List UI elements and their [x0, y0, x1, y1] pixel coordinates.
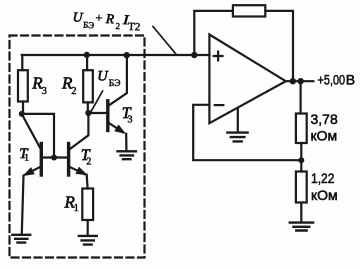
- node B (R2 bottom / T3 base): [85, 110, 91, 116]
- wire feedback left vertical + top run: [194, 11, 233, 55]
- label node formula U_BE + R2 I_T2: [72, 9, 141, 33]
- wire 1.22k to ground: [300, 203, 302, 223]
- svg-text:3: 3: [42, 86, 47, 97]
- svg-text:БЭ: БЭ: [109, 79, 121, 89]
- label T2: [81, 147, 92, 167]
- node A (R3 bottom / T1 collector / bases): [19, 111, 25, 117]
- resistor R2: [83, 55, 93, 113]
- svg-text:2: 2: [71, 86, 76, 97]
- wire divider middle: [300, 143, 302, 172]
- wire T1 collector diagonal: [22, 115, 41, 150]
- wire T3 emitter to ground: [125, 134, 127, 151]
- svg-text:БЭ: БЭ: [83, 20, 95, 31]
- label R1: [64, 193, 79, 215]
- wire output to divider: [300, 81, 302, 113]
- ground (divider bottom): [290, 223, 313, 231]
- value 3,78 kOhm: [311, 111, 338, 144]
- wire base tie T1-T2: [41, 156, 68, 158]
- svg-text:+: +: [95, 11, 103, 25]
- value 1,22 kOhm: [311, 170, 338, 203]
- wire output: [286, 80, 314, 82]
- wire T2 emitter to R1: [86, 175, 89, 189]
- svg-text:1: 1: [74, 203, 79, 214]
- svg-text:R: R: [104, 11, 115, 27]
- svg-text:кОм: кОм: [311, 187, 338, 203]
- node D (divider tap): [298, 157, 304, 163]
- node base junction: [51, 155, 57, 161]
- wire node A to bases: [22, 114, 54, 158]
- pointer line formula to rail: [153, 27, 176, 54]
- op-amp + input marking: [214, 52, 223, 61]
- wire - input feedback from divider: [193, 105, 301, 160]
- label U_BE (T3): [97, 69, 120, 90]
- wire T1 emitter to ground: [22, 176, 24, 234]
- svg-text:В: В: [346, 71, 355, 87]
- resistor R1: [82, 189, 93, 236]
- node output (feedback): [290, 78, 296, 84]
- node on rail at R2 top: [84, 52, 90, 58]
- ground (op-amp): [227, 133, 247, 142]
- transistor T2: [69, 144, 87, 176]
- svg-text:U: U: [97, 69, 109, 85]
- transistor T1: [24, 144, 41, 176]
- wire T3 collector: [109, 55, 127, 105]
- svg-text:1: 1: [24, 154, 29, 164]
- resistor 3.78 kOhm: [296, 114, 307, 144]
- node output (divider): [297, 78, 303, 84]
- svg-text:3,78: 3,78: [311, 111, 338, 127]
- svg-text:+5,00: +5,00: [318, 72, 346, 88]
- label R3: [31, 73, 47, 97]
- svg-text:1,22: 1,22: [311, 170, 334, 186]
- wire feedback right run down to output: [265, 11, 293, 81]
- op-amp - input marking: [215, 104, 224, 106]
- transistor T3: [108, 101, 125, 133]
- svg-text:Т2: Т2: [128, 21, 141, 34]
- wire node B to T3 base: [88, 112, 106, 114]
- dashed box (bandgap cell outline): [10, 36, 145, 258]
- svg-text:2: 2: [86, 156, 91, 167]
- label R2: [61, 73, 77, 97]
- svg-text:кОм: кОм: [311, 127, 338, 143]
- node on rail at T3 collector: [124, 52, 130, 58]
- resistor R3: [18, 55, 28, 114]
- label +5,00 V output: [318, 72, 346, 88]
- resistor feedback (top): [233, 5, 265, 16]
- pointer line U_BE to node B: [91, 91, 103, 112]
- ground (R1 bottom): [79, 236, 97, 245]
- ground (T1 emitter): [12, 235, 30, 243]
- label T1: [19, 146, 29, 164]
- node C (+ input / feedback tap): [191, 52, 197, 58]
- resistor 1.22 kOhm: [296, 172, 307, 203]
- wire T2 collector (from node B): [69, 113, 89, 150]
- wire: main top rail y=55 to op-amp + input: [22, 54, 210, 56]
- op-amp U1 triangle: [209, 35, 285, 124]
- svg-text:2: 2: [115, 21, 120, 31]
- svg-text:3: 3: [128, 114, 133, 125]
- ground (T3 emitter): [118, 151, 136, 159]
- wire op-amp ground stem: [237, 109, 239, 133]
- label T3: [122, 105, 133, 126]
